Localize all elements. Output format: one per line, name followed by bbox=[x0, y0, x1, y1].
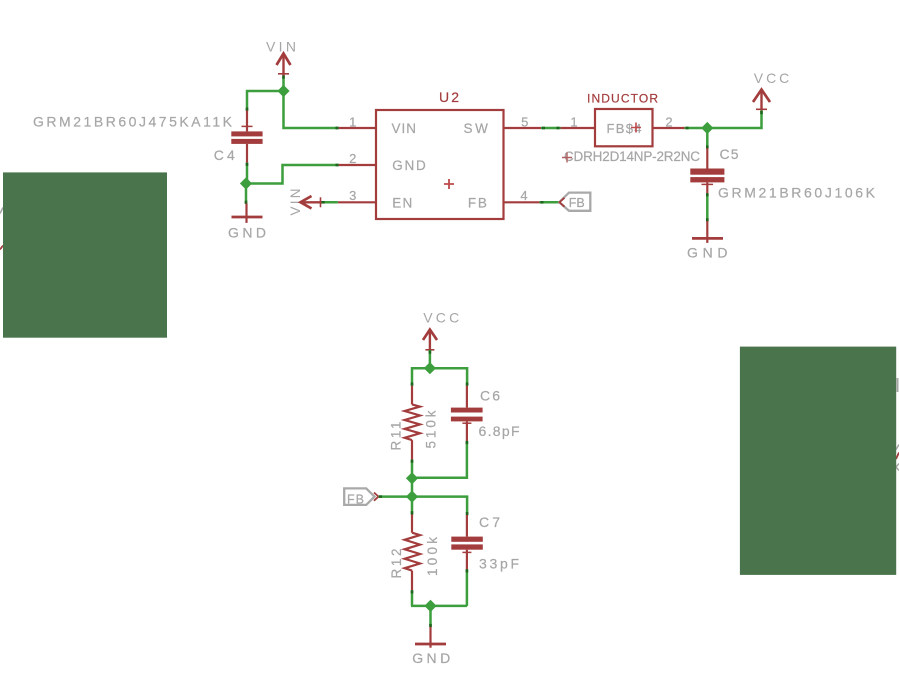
wire top rail to R11 and C6 bbox=[411, 368, 469, 386]
svg-text:GRM21BR60J106K: GRM21BR60J106K bbox=[718, 185, 876, 201]
pin 1 (inductor) bbox=[561, 114, 596, 129]
svg-text:U2: U2 bbox=[439, 89, 459, 105]
supply symbol VIN (top) bbox=[266, 39, 296, 76]
svg-text:GND: GND bbox=[228, 225, 266, 241]
hidden component sliver (left edge, gray text) bbox=[0, 208, 3, 214]
svg-text:R11: R11 bbox=[389, 422, 404, 451]
svg-text:1: 1 bbox=[349, 114, 356, 129]
name label C6 bbox=[480, 388, 500, 404]
junction GND node (left) bbox=[240, 177, 252, 189]
name label R11 bbox=[389, 422, 404, 451]
capacitor C6 bbox=[451, 386, 483, 442]
svg-text:VCC: VCC bbox=[754, 70, 790, 86]
value label 6.8pF bbox=[479, 423, 520, 439]
svg-text:GRM21BR60J475KA11K: GRM21BR60J475KA11K bbox=[33, 114, 233, 130]
value label 510k bbox=[424, 410, 439, 448]
junction mid node (R11 bottom) bbox=[406, 472, 418, 484]
ground GND (under C5) bbox=[687, 221, 728, 260]
capacitor C7 bbox=[451, 515, 483, 570]
svg-text:R12: R12 bbox=[389, 549, 404, 579]
junction VIN node bbox=[277, 85, 289, 97]
wire R12 bottom to bottom rail bbox=[411, 590, 414, 606]
hidden component sliver (right edge, gray diagonal) bbox=[896, 445, 899, 450]
wire junction to U2 pin 2 bbox=[246, 164, 339, 184]
svg-text:33pF: 33pF bbox=[479, 556, 519, 572]
name label C5 bbox=[720, 146, 739, 162]
pin 4 (U2 FB) bbox=[504, 188, 540, 203]
pin 5 (U2 SW) bbox=[504, 114, 542, 129]
wire C7 bottom to bottom rail bbox=[466, 569, 469, 606]
svg-text:INDUCTOR: INDUCTOR bbox=[587, 91, 658, 105]
svg-text:GND: GND bbox=[412, 650, 450, 666]
svg-text:C5: C5 bbox=[720, 146, 739, 162]
svg-text:VIN: VIN bbox=[392, 121, 417, 136]
wire VCC to top junction bbox=[429, 350, 432, 368]
ground GND (bottom) bbox=[412, 627, 450, 666]
svg-text:C7: C7 bbox=[479, 514, 500, 530]
junction top node (R11/C6) bbox=[424, 362, 436, 374]
svg-text:6.8pF: 6.8pF bbox=[479, 423, 520, 439]
name label C4 bbox=[214, 147, 235, 163]
capacitor C4 bbox=[231, 111, 262, 163]
wire C6 bottom to junction bbox=[412, 441, 468, 478]
svg-text:2: 2 bbox=[665, 114, 672, 129]
wire pin 4 to FB flag bbox=[540, 201, 560, 204]
svg-text:1: 1 bbox=[570, 114, 577, 129]
wire junction to C4 top bbox=[246, 91, 284, 111]
wire pin 5 to inductor pin 1 bbox=[541, 127, 561, 130]
hidden component sliver (left edge, red) bbox=[0, 246, 3, 250]
image placeholder (right) bbox=[740, 347, 896, 575]
hidden component sliver (right edge, gray) bbox=[897, 378, 899, 392]
supply symbol VIN (at EN, pointing left) bbox=[288, 189, 322, 216]
wire junction to GND symbol bbox=[429, 606, 432, 627]
svg-text:GND: GND bbox=[687, 245, 728, 261]
svg-text:CDRH2D14NP-2R2NC: CDRH2D14NP-2R2NC bbox=[564, 149, 700, 164]
value label 33pF bbox=[479, 556, 519, 572]
wire junction to U2 pin 1 bbox=[284, 91, 339, 129]
inductor L (FB$4) bbox=[587, 91, 658, 146]
svg-text:GND: GND bbox=[392, 158, 426, 173]
capacitor C5 bbox=[690, 148, 724, 193]
wire FB node rail to R12 and C7 bbox=[411, 497, 469, 516]
name label R12 bbox=[389, 549, 404, 579]
resistor R11 bbox=[405, 386, 420, 460]
supply symbol VCC (right) bbox=[753, 70, 789, 111]
value label CDRH2D14NP-2R2NC bbox=[562, 149, 700, 164]
wire bottom rail bbox=[411, 605, 467, 608]
wire junction to FB node bbox=[411, 478, 414, 496]
svg-text:2: 2 bbox=[349, 151, 356, 166]
hidden component sliver (right edge, gray chevron) bbox=[896, 464, 899, 471]
value label 100k bbox=[425, 537, 440, 576]
image placeholder (left) bbox=[3, 172, 167, 337]
svg-text:VIN: VIN bbox=[266, 39, 296, 55]
svg-text:510k: 510k bbox=[424, 410, 439, 448]
wire VIN arrow to pin 3 bbox=[322, 201, 338, 204]
value label GRM21BR60J106K bbox=[718, 185, 876, 201]
pin 2 (U2 GND) bbox=[339, 151, 376, 166]
supply symbol VCC (bottom network) bbox=[423, 310, 459, 351]
IC U2 bbox=[376, 89, 504, 219]
pin 2 (inductor) bbox=[653, 114, 685, 129]
hidden component sliver (right edge, red) bbox=[896, 453, 899, 460]
wire junction to C5 top bbox=[706, 128, 709, 149]
ground GND (under C4) bbox=[228, 204, 266, 241]
name label C7 bbox=[479, 514, 500, 530]
svg-text:VCC: VCC bbox=[423, 310, 459, 326]
wire FB flag to junction bbox=[379, 495, 413, 498]
wire inductor pin 2 to VCC corner bbox=[685, 111, 763, 130]
net flag FB (at U2 pin 4) bbox=[559, 193, 590, 211]
svg-text:3: 3 bbox=[349, 188, 356, 203]
wire R11 bottom to junction bbox=[411, 460, 414, 479]
svg-text:SW: SW bbox=[464, 121, 489, 136]
svg-text:FB: FB bbox=[569, 196, 585, 210]
svg-text:5: 5 bbox=[521, 114, 528, 129]
pin 1 (U2 VIN) bbox=[339, 114, 376, 129]
svg-text:4: 4 bbox=[520, 188, 527, 203]
wire VIN supply to junction bbox=[282, 76, 285, 92]
value label GRM21BR60J475KA11K (C4) bbox=[33, 114, 233, 130]
svg-text:FB: FB bbox=[347, 492, 364, 506]
svg-text:FB: FB bbox=[468, 195, 487, 210]
wire C4 bottom to junction bbox=[246, 163, 249, 184]
pin 3 (U2 EN) bbox=[338, 188, 376, 203]
svg-text:EN: EN bbox=[392, 195, 412, 210]
net flag FB (bottom, pointing right) bbox=[344, 488, 378, 506]
junction FB node bbox=[406, 491, 418, 503]
wire junction to GND symbol bbox=[245, 184, 248, 204]
resistor R12 bbox=[405, 514, 420, 590]
svg-text:C4: C4 bbox=[214, 147, 235, 163]
wire C5 bottom to GND bbox=[706, 193, 709, 221]
svg-text:C6: C6 bbox=[480, 388, 500, 404]
junction GND node (bottom) bbox=[424, 600, 436, 612]
junction VCC node (right) bbox=[701, 122, 713, 134]
svg-text:100k: 100k bbox=[425, 537, 440, 576]
